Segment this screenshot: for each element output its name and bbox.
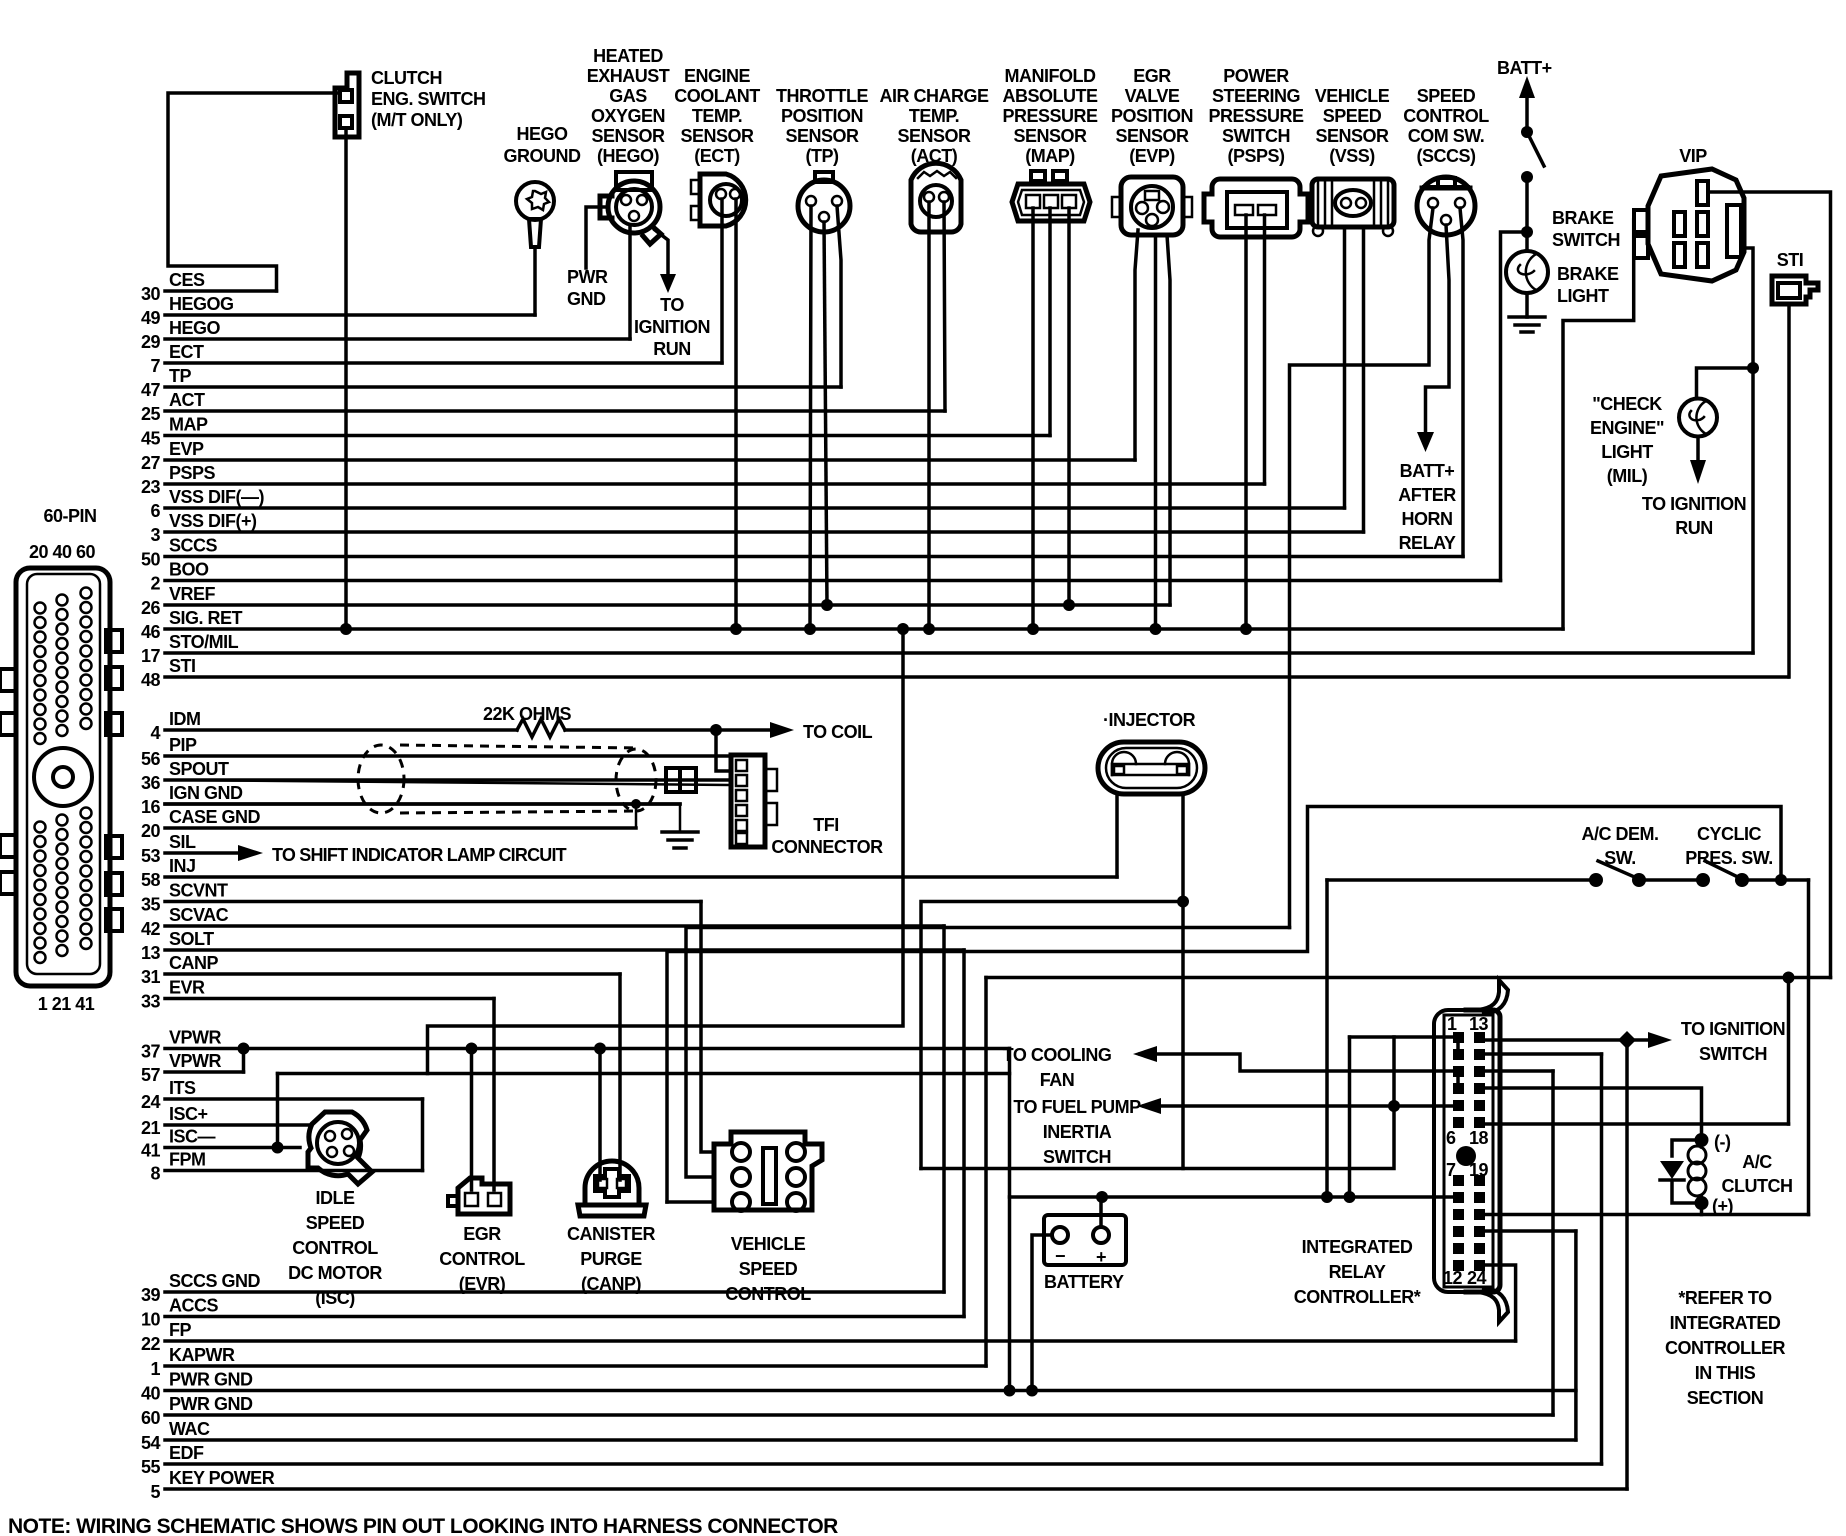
- shield dashed bottom line: [400, 811, 640, 813]
- svg-text:IGN GND: IGN GND: [169, 783, 243, 803]
- wire relay pin5 to fuel pump: [1144, 1104, 1452, 1108]
- wire PSPS return to SIG RET: [1244, 215, 1248, 629]
- svg-text:TO COOLING: TO COOLING: [1003, 1045, 1112, 1065]
- wire STO/MIL pin 17 line: [165, 651, 1753, 655]
- wire SCVNT to VSC top: [701, 902, 712, 1153]
- svg-text:BATT+: BATT+: [1497, 58, 1552, 78]
- relay pin squares: [1453, 1032, 1485, 1271]
- svg-text:·INJECTOR: ·INJECTOR: [1103, 710, 1196, 730]
- svg-text:TO IGNITION: TO IGNITION: [1681, 1019, 1785, 1039]
- MAP sensor body: [1012, 184, 1090, 221]
- AC demand switch contacts: [1589, 873, 1603, 887]
- svg-text:KEY POWER: KEY POWER: [169, 1468, 275, 1488]
- svg-text:VPWR: VPWR: [169, 1051, 222, 1071]
- svg-text:SWITCH: SWITCH: [1552, 230, 1620, 250]
- wire VIP to SIG RET: [1563, 220, 1634, 629]
- svg-text:37: 37: [141, 1042, 161, 1062]
- battery terminals: [1052, 1227, 1068, 1243]
- wire HEGO pin 29 line: [165, 337, 630, 341]
- svg-text:30: 30: [141, 284, 161, 304]
- node cyclic bypass on switch line: [1775, 874, 1787, 886]
- svg-text:48: 48: [141, 670, 161, 690]
- svg-text:AIR CHARGE: AIR CHARGE: [879, 86, 988, 106]
- wire SCVAC down to SCCS GND: [942, 926, 946, 1292]
- wire HEGO signal to HEGO line: [628, 225, 632, 339]
- svg-text:SECTION: SECTION: [1687, 1388, 1764, 1408]
- svg-text:8: 8: [150, 1164, 160, 1184]
- svg-text:60-PIN: 60-PIN: [43, 506, 96, 526]
- ACT sensor pins: [924, 192, 934, 202]
- wire injector feed to fuel pump line: [921, 1106, 1394, 1169]
- wire WAC pin 54 line: [165, 1438, 1576, 1442]
- svg-text:PIP: PIP: [169, 735, 197, 755]
- svg-text:TEMP.: TEMP.: [909, 106, 959, 126]
- svg-text:TO: TO: [660, 295, 684, 315]
- svg-text:29: 29: [141, 332, 161, 352]
- svg-text:31: 31: [141, 967, 161, 987]
- svg-text:CONTROL: CONTROL: [439, 1249, 525, 1269]
- EGR control EVR body: [458, 1178, 510, 1214]
- svg-text:PWR GND: PWR GND: [169, 1394, 253, 1414]
- node battery plus on trunk: [1096, 1191, 1108, 1203]
- wire INJ pin 58 line: [165, 875, 1117, 879]
- wire PIP pin 56 line: [165, 754, 729, 758]
- wire PWR GND pin 60 line: [165, 1413, 1553, 1417]
- svg-text:PWR: PWR: [567, 267, 608, 287]
- wire SCCS to BATT after horn relay: [1426, 225, 1450, 434]
- wire SCCS ground side to SCCS GND: [1290, 208, 1434, 928]
- arrow BATT+ up: [1519, 76, 1535, 98]
- wire ACT signal: [944, 202, 945, 411]
- svg-text:58: 58: [141, 870, 161, 890]
- shield dashed top line: [400, 745, 640, 748]
- ground brake light: [1525, 293, 1529, 317]
- wire ITS FPM staple: [421, 1099, 425, 1171]
- wire speed control servo line: [667, 807, 1781, 1203]
- wire VSC bottom stub: [667, 1200, 712, 1204]
- svg-text:(ISC): (ISC): [315, 1288, 355, 1308]
- arrow MIL to ignition run: [1690, 460, 1706, 484]
- svg-text:20: 20: [141, 821, 161, 841]
- wire SOLT pin 13 line: [165, 948, 964, 952]
- ground TFI: [679, 804, 682, 832]
- STI connector body: [1772, 276, 1818, 304]
- wire top right bus: [986, 976, 1831, 980]
- wire ECT signal: [720, 199, 724, 363]
- ISC pins: [325, 1131, 335, 1141]
- wire ACT return to SIG RET: [927, 202, 931, 629]
- arrow BATT after horn relay: [1417, 432, 1434, 452]
- wire relay pin22 stub: [1486, 1229, 1576, 1233]
- svg-text:SENSOR: SENSOR: [591, 126, 665, 146]
- wire key power riser: [1625, 1040, 1629, 1489]
- svg-text:SOLT: SOLT: [169, 929, 214, 949]
- wire STI pin 48 line: [165, 675, 1788, 679]
- svg-text:LIGHT: LIGHT: [1557, 286, 1609, 306]
- wire main power trunk: [278, 1074, 1456, 1198]
- wire ITS pin 24 line: [165, 1097, 423, 1101]
- svg-text:A/C DEM.: A/C DEM.: [1582, 824, 1659, 844]
- wire SCCS signal to SCCS line: [1460, 208, 1463, 557]
- svg-text:60: 60: [141, 1408, 161, 1428]
- shield dashed right ellipse: [616, 749, 656, 811]
- HEGO sensor pins: [621, 195, 631, 205]
- wire TP vref: [824, 222, 827, 605]
- svg-text:NOTE: WIRING SCHEMATIC SHOWS P: NOTE: WIRING SCHEMATIC SHOWS PIN OUT LOO…: [8, 1515, 838, 1536]
- svg-text:"CHECK: "CHECK: [1592, 394, 1662, 414]
- wire PWR GND pin 40 line: [165, 1389, 1576, 1393]
- svg-text:CANP: CANP: [169, 953, 218, 973]
- svg-text:TFI: TFI: [813, 815, 839, 835]
- svg-text:42: 42: [141, 919, 161, 939]
- wire relay pin15 stub: [1486, 1069, 1553, 1073]
- svg-text:STO/MIL: STO/MIL: [169, 632, 239, 652]
- svg-text:POWER: POWER: [1223, 66, 1289, 86]
- svg-text:A/C: A/C: [1742, 1152, 1772, 1172]
- node TP on SIG RET: [804, 623, 816, 635]
- svg-text:6: 6: [1446, 1128, 1456, 1148]
- svg-text:INTEGRATED: INTEGRATED: [1670, 1313, 1781, 1333]
- svg-text:50: 50: [141, 550, 161, 570]
- svg-text:41: 41: [141, 1141, 161, 1161]
- TP sensor pins: [806, 196, 816, 206]
- wire IGN GND pin 16 line: [165, 802, 680, 806]
- svg-text:EDF: EDF: [169, 1443, 204, 1463]
- inline connector on SPOUT: [165, 780, 729, 785]
- TP sensor body: [798, 180, 850, 232]
- svg-text:(MAP): (MAP): [1025, 146, 1075, 166]
- wire SPOUT pin 36 line: [165, 778, 729, 782]
- cyclic pressure switch blade: [1705, 861, 1742, 879]
- wire IDM arrow to coil: [716, 728, 772, 732]
- svg-text:39: 39: [141, 1285, 161, 1305]
- svg-text:SWITCH: SWITCH: [1043, 1147, 1111, 1167]
- svg-text:PRESSURE: PRESSURE: [1002, 106, 1098, 126]
- node riser b on trunk: [1344, 1191, 1356, 1203]
- svg-text:2: 2: [150, 574, 160, 594]
- svg-text:(TP): (TP): [806, 146, 839, 166]
- svg-text:ISC+: ISC+: [169, 1104, 208, 1124]
- svg-text:STI: STI: [1777, 250, 1804, 270]
- wire EDF riser: [1600, 1054, 1604, 1464]
- svg-text:PRESSURE: PRESSURE: [1208, 106, 1304, 126]
- wire trunk tail to ISC: [276, 1074, 280, 1148]
- clutch switch pin 2: [340, 116, 352, 128]
- svg-text:AFTER: AFTER: [1398, 485, 1456, 505]
- node right bus top: [1783, 972, 1795, 984]
- wire BOO pin 2 line: [165, 579, 1501, 583]
- svg-text:SENSOR: SENSOR: [1115, 126, 1189, 146]
- svg-text:SWITCH: SWITCH: [1699, 1044, 1767, 1064]
- svg-text:OXYGEN: OXYGEN: [591, 106, 665, 126]
- svg-text:LIGHT: LIGHT: [1601, 442, 1653, 462]
- wire PIP line to TFI: [165, 755, 729, 758]
- svg-text:(EVP): (EVP): [1129, 146, 1175, 166]
- svg-text:SIL: SIL: [169, 832, 196, 852]
- svg-text:VSS DIF(+): VSS DIF(+): [169, 511, 257, 531]
- svg-text:WAC: WAC: [169, 1419, 210, 1439]
- svg-text:36: 36: [141, 773, 161, 793]
- wire VPWR into trunk riser: [1008, 1049, 1012, 1074]
- svg-text:CONTROL: CONTROL: [1403, 106, 1489, 126]
- wire clutch switch to CES: [168, 93, 339, 291]
- svg-text:SW.: SW.: [1604, 848, 1636, 868]
- battery body: [1044, 1215, 1126, 1265]
- svg-text:TEMP.: TEMP.: [692, 106, 742, 126]
- wire MAP signal: [1048, 208, 1052, 436]
- svg-text:HEGO: HEGO: [516, 124, 568, 144]
- svg-text:57: 57: [141, 1065, 161, 1085]
- svg-text:49: 49: [141, 308, 161, 328]
- svg-text:ACCS: ACCS: [169, 1296, 218, 1316]
- svg-text:ENGINE": ENGINE": [1590, 418, 1664, 438]
- svg-text:(VSS): (VSS): [1329, 146, 1375, 166]
- node ACT on SIG RET: [923, 623, 935, 635]
- wire CASE GND riser: [635, 804, 638, 828]
- svg-text:VPWR: VPWR: [169, 1028, 222, 1048]
- svg-text:17: 17: [141, 646, 161, 666]
- svg-text:FPM: FPM: [169, 1150, 206, 1170]
- wire HEGO ground to HEGOG: [533, 247, 537, 315]
- wire relay pin21 to AC clutch plus: [1486, 1213, 1809, 1217]
- svg-text:SWITCH: SWITCH: [1222, 126, 1290, 146]
- wire right bus riser: [1787, 978, 1791, 1125]
- svg-text:POSITION: POSITION: [781, 106, 863, 126]
- svg-text:CES: CES: [169, 270, 205, 290]
- wire KAPWR pin 1 line: [165, 1364, 986, 1368]
- wire second riser: [1348, 1037, 1352, 1197]
- wire AC switch line: [1327, 878, 1596, 882]
- svg-text:PRES. SW.: PRES. SW.: [1685, 848, 1773, 868]
- svg-text:(+): (+): [1712, 1196, 1734, 1216]
- wire EVR pin 33 line: [165, 997, 494, 1001]
- node MAP on SIG RET: [1027, 623, 1039, 635]
- svg-text:SPEED: SPEED: [1323, 106, 1382, 126]
- svg-text:45: 45: [141, 429, 161, 449]
- wire IGN GND line: [165, 802, 680, 806]
- svg-text:25: 25: [141, 404, 161, 424]
- wire relay pin24 to FP: [1486, 1265, 1516, 1341]
- wire TP pin 47 line: [165, 385, 841, 389]
- svg-text:PSPS: PSPS: [169, 463, 216, 483]
- node brake switch bottom: [1521, 171, 1533, 183]
- svg-text:TO IGNITION: TO IGNITION: [1642, 494, 1746, 514]
- HEGO ground eyelet symbol: [516, 182, 554, 220]
- wire SIG RET drop: [428, 629, 904, 1074]
- wire SCCS GND pin 39 line: [165, 1290, 944, 1294]
- svg-text:46: 46: [141, 622, 161, 642]
- svg-text:HORN: HORN: [1402, 509, 1453, 529]
- svg-text:CONTROL: CONTROL: [725, 1284, 811, 1304]
- ECT sensor tabs: [691, 180, 700, 194]
- wire ECT return to SIG RET: [734, 199, 738, 629]
- svg-text:TO COIL: TO COIL: [803, 722, 873, 742]
- PSPS switch body: [1204, 179, 1308, 237]
- wire EGR vpwr feed: [470, 1049, 474, 1191]
- svg-text:CONTROLLER*: CONTROLLER*: [1294, 1287, 1421, 1307]
- svg-text:35: 35: [141, 895, 161, 915]
- connector side notches: [106, 630, 122, 652]
- wire EVP signal: [1135, 230, 1138, 460]
- wire battery plus to trunk: [1099, 1197, 1103, 1227]
- VSS sensor body: [1312, 179, 1394, 227]
- svg-text:DC MOTOR: DC MOTOR: [288, 1263, 382, 1283]
- wire EGR signal feed: [492, 999, 496, 1191]
- wire ACCS pin 10 line: [165, 1315, 964, 1319]
- wire SCCS route to VSC mid: [686, 928, 1290, 1178]
- svg-text:54: 54: [141, 1433, 161, 1453]
- svg-text:22: 22: [141, 1334, 161, 1354]
- AC clutch plus node: [1695, 1196, 1709, 1210]
- AC demand switch blade: [1598, 861, 1639, 879]
- wire VPWR pin 37 line: [165, 1047, 1010, 1051]
- svg-text:RUN: RUN: [1675, 518, 1713, 538]
- svg-text:16: 16: [141, 797, 161, 817]
- clutch switch pin 1: [340, 90, 352, 102]
- svg-text:(PSPS): (PSPS): [1227, 146, 1285, 166]
- ECT sensor body: [700, 174, 746, 226]
- wire VSS dif minus: [1343, 227, 1347, 508]
- node brake switch top: [1521, 126, 1533, 138]
- svg-text:FAN: FAN: [1040, 1070, 1075, 1090]
- svg-text:ACT: ACT: [169, 390, 205, 410]
- svg-text:CASE GND: CASE GND: [169, 807, 261, 827]
- wire MAP pin 45 line: [165, 434, 1050, 438]
- wire HEGOG pin 49 line: [165, 313, 535, 317]
- node VPWR joint: [238, 1043, 250, 1055]
- wire injector right pin down: [1181, 794, 1185, 1169]
- svg-text:GAS: GAS: [609, 86, 647, 106]
- 60-pin EEC connector body: [16, 568, 110, 986]
- svg-text:53: 53: [141, 846, 161, 866]
- svg-text:BOO: BOO: [169, 560, 209, 580]
- svg-text:ABSOLUTE: ABSOLUTE: [1003, 86, 1098, 106]
- AC clutch coil: [1700, 1140, 1704, 1203]
- svg-text:EGR: EGR: [463, 1224, 501, 1244]
- EVP sensor pins: [1145, 191, 1159, 200]
- wire ACT pin 25 line: [165, 409, 945, 413]
- svg-text:VEHICLE: VEHICLE: [731, 1234, 806, 1254]
- svg-text:40: 40: [141, 1384, 161, 1404]
- wire CANP signal feed: [618, 974, 622, 1180]
- svg-text:SPEED: SPEED: [1417, 86, 1476, 106]
- svg-text:26: 26: [141, 598, 161, 618]
- arrow to cooling fan: [1133, 1046, 1157, 1062]
- wire MIL to ignition run: [1696, 437, 1700, 462]
- svg-text:10: 10: [141, 1310, 161, 1330]
- wire WAC riser: [1574, 1231, 1578, 1440]
- wire VSS DIF(+) pin 3 line: [165, 530, 1364, 534]
- canister purge CANP body: [578, 1161, 646, 1216]
- wire MAP return to SIG RET: [1031, 208, 1035, 629]
- svg-text:TO FUEL PUMP: TO FUEL PUMP: [1013, 1097, 1141, 1117]
- svg-text:INTEGRATED: INTEGRATED: [1302, 1237, 1413, 1257]
- wire VREF pin 26 line: [165, 603, 1170, 607]
- wire STI connector to STI line: [1787, 304, 1791, 677]
- svg-text:BRAKE: BRAKE: [1552, 208, 1614, 228]
- svg-text:EXHAUST: EXHAUST: [587, 66, 670, 86]
- svg-text:STEERING: STEERING: [1212, 86, 1300, 106]
- svg-text:6: 6: [150, 501, 160, 521]
- svg-text:SENSOR: SENSOR: [1315, 126, 1389, 146]
- svg-text:ISC—: ISC—: [169, 1127, 216, 1147]
- wire clutch switch to SIG RET: [344, 128, 348, 629]
- svg-text:55: 55: [141, 1457, 161, 1477]
- TFI pins: [736, 760, 747, 771]
- wire VPWR junction to VPWR57: [242, 1049, 246, 1073]
- wire SCVAC pin 42 line: [165, 924, 944, 928]
- svg-text:SENSOR: SENSOR: [1013, 126, 1087, 146]
- EVP sensor body: [1121, 177, 1183, 235]
- wire PWR GND60 riser: [1551, 1071, 1555, 1415]
- svg-text:−: −: [1055, 1246, 1065, 1266]
- svg-text:GROUND: GROUND: [504, 146, 581, 166]
- svg-text:IN THIS: IN THIS: [1695, 1363, 1756, 1383]
- wire IDM down to TFI pin: [716, 730, 729, 771]
- svg-text:13: 13: [141, 943, 161, 963]
- svg-text:POSITION: POSITION: [1111, 106, 1193, 126]
- wire BOO line riser: [1501, 232, 1528, 581]
- arrow to fuel pump: [1137, 1098, 1161, 1114]
- vehicle speed control body: [714, 1132, 822, 1210]
- svg-text:TP: TP: [169, 366, 191, 386]
- wire VIP mid pin to STO MIL: [1744, 248, 1753, 653]
- node trunk on ISC minus: [272, 1142, 284, 1154]
- brake switch blade: [1527, 132, 1544, 166]
- svg-text:MANIFOLD: MANIFOLD: [1005, 66, 1096, 86]
- svg-text:BRAKE: BRAKE: [1557, 264, 1619, 284]
- wire battery feed to fuel line: [1392, 1037, 1396, 1106]
- arrow to ignition run: [660, 274, 676, 293]
- clutch engage switch body: [335, 73, 359, 137]
- VIP connector body: [1648, 169, 1744, 281]
- wire SOLT down to ACCS: [962, 950, 966, 1317]
- wire TP signal: [837, 206, 841, 387]
- svg-text:PURGE: PURGE: [580, 1249, 642, 1269]
- node MIL junction: [1747, 362, 1759, 374]
- svg-text:SENSOR: SENSOR: [785, 126, 859, 146]
- svg-text:GND: GND: [567, 289, 606, 309]
- svg-text:ECT: ECT: [169, 342, 204, 362]
- brake light bulb: [1506, 251, 1548, 293]
- AC clutch minus node: [1695, 1133, 1709, 1147]
- wire CANP pin 31 line: [165, 972, 620, 976]
- wire switch output drop: [1807, 880, 1811, 1215]
- svg-text:(ECT): (ECT): [694, 146, 740, 166]
- node TP on VREF: [821, 599, 833, 611]
- node MAP on VREF: [1063, 599, 1075, 611]
- svg-text:IDM: IDM: [169, 709, 201, 729]
- wire AC switch feed riser: [1325, 880, 1329, 1197]
- svg-text:SCVNT: SCVNT: [169, 881, 228, 901]
- svg-text:23: 23: [141, 477, 161, 497]
- wire AC clutch plus riser: [1700, 1203, 1704, 1215]
- svg-text:CLUTCH: CLUTCH: [1722, 1176, 1793, 1196]
- ACT sensor body: [911, 163, 961, 232]
- svg-text:INJ: INJ: [169, 856, 196, 876]
- wire PSPS pin 23 line: [165, 482, 1265, 486]
- wire PSPS signal: [1263, 215, 1267, 484]
- svg-text:SENSOR: SENSOR: [897, 126, 971, 146]
- idle speed control motor body: [308, 1112, 372, 1184]
- wire SCCS pin 50 line: [165, 555, 1463, 559]
- svg-text:SPEED: SPEED: [306, 1213, 365, 1233]
- svg-text:24: 24: [141, 1092, 161, 1112]
- svg-text:CONTROLLER: CONTROLLER: [1665, 1338, 1785, 1358]
- svg-text:THROTTLE: THROTTLE: [776, 86, 868, 106]
- svg-text:HEGO: HEGO: [169, 318, 221, 338]
- svg-text:CLUTCH: CLUTCH: [371, 68, 442, 88]
